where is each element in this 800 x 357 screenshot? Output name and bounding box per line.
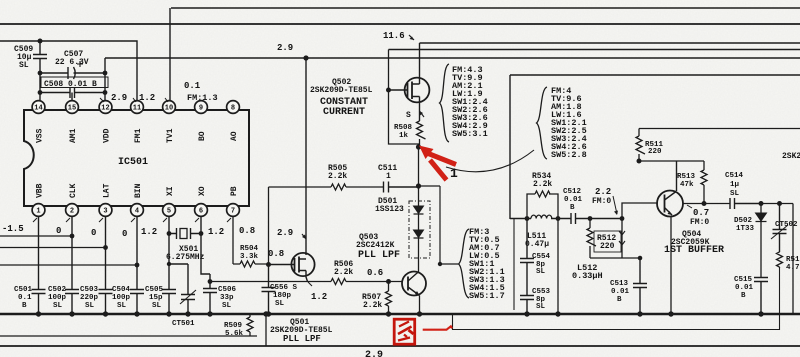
resistor R507 bbox=[386, 282, 392, 315]
node combo right bbox=[556, 216, 561, 221]
svg-text:2.2: 2.2 bbox=[595, 187, 611, 197]
node C513 ground bbox=[637, 311, 642, 316]
svg-text:15: 15 bbox=[68, 105, 76, 113]
svg-text:C506: C506 bbox=[218, 286, 237, 294]
svg-text:C502: C502 bbox=[48, 286, 67, 294]
svg-text:1.2: 1.2 bbox=[208, 227, 224, 237]
wire 11.6 drain rail bbox=[420, 42, 800, 44]
svg-text:1SS123: 1SS123 bbox=[375, 205, 404, 214]
svg-text:0: 0 bbox=[91, 228, 96, 238]
capacitor C504 bbox=[130, 217, 144, 314]
svg-text:BIN: BIN bbox=[134, 183, 143, 198]
resistor R511 bbox=[636, 129, 645, 162]
svg-text:C553: C553 bbox=[532, 288, 551, 296]
node CT502 top bbox=[777, 201, 782, 206]
capacitor C502 bbox=[65, 217, 79, 314]
crystal X501 bbox=[169, 228, 201, 239]
svg-text:4: 4 bbox=[135, 208, 139, 216]
capacitor C509 bbox=[33, 41, 47, 101]
svg-text:11: 11 bbox=[133, 105, 141, 113]
svg-text:FM1: FM1 bbox=[134, 128, 143, 143]
transistor Q501 FET bbox=[269, 234, 315, 286]
node R513 bottom bbox=[702, 201, 707, 206]
svg-text:5.6k: 5.6k bbox=[225, 330, 244, 338]
transistor Q504 bbox=[657, 161, 730, 314]
wire base riser bbox=[622, 203, 658, 219]
node pin5 jog bbox=[167, 262, 171, 266]
small pin arrows bbox=[33, 98, 231, 222]
svg-text:PB: PB bbox=[230, 186, 239, 196]
node C508 right bbox=[103, 90, 108, 95]
transistor Q503 bbox=[402, 272, 426, 315]
svg-text:0.7: 0.7 bbox=[693, 208, 709, 218]
node C512 right bbox=[588, 216, 593, 221]
svg-text:AO: AO bbox=[230, 131, 239, 141]
node R511 bottom bbox=[637, 159, 642, 164]
resistor R534 bbox=[527, 191, 558, 219]
svg-text:C505: C505 bbox=[145, 286, 164, 294]
wire left rail to pin11 bbox=[0, 41, 137, 101]
op-amp IC501 body bbox=[24, 110, 249, 206]
svg-text:2SK209D-TE85L: 2SK209D-TE85L bbox=[310, 86, 373, 95]
svg-text:SL: SL bbox=[152, 302, 162, 310]
svg-text:1.2: 1.2 bbox=[311, 292, 327, 302]
svg-text:R504: R504 bbox=[240, 245, 259, 253]
wire gate rail bbox=[389, 49, 800, 51]
svg-text:XI: XI bbox=[166, 186, 175, 196]
svg-text:SL: SL bbox=[222, 302, 232, 310]
svg-text:2SK2: 2SK2 bbox=[782, 152, 800, 161]
svg-text:PLL LPF: PLL LPF bbox=[283, 334, 321, 344]
svg-text:33p: 33p bbox=[220, 294, 234, 302]
wire bottom-left rail bbox=[0, 335, 257, 337]
pin 2 bbox=[66, 204, 79, 217]
svg-text:FM:1.3: FM:1.3 bbox=[187, 93, 218, 103]
svg-text:CT501: CT501 bbox=[172, 320, 195, 328]
capacitor C511 bbox=[384, 182, 419, 193]
svg-text:14: 14 bbox=[34, 105, 42, 113]
node C513 top bbox=[638, 256, 643, 261]
svg-text:AM1: AM1 bbox=[69, 128, 78, 143]
svg-text:VSS: VSS bbox=[36, 128, 45, 143]
capacitor C513 bbox=[633, 258, 647, 314]
resistor R504 bbox=[233, 217, 269, 267]
svg-text:C504: C504 bbox=[112, 286, 131, 294]
wire bottom link bbox=[265, 314, 267, 346]
pin 4 bbox=[131, 204, 144, 217]
svg-text:C508 0.01 B: C508 0.01 B bbox=[44, 80, 97, 89]
pin 6 bbox=[195, 204, 208, 217]
node combo left bbox=[525, 216, 530, 221]
svg-text:SW5:2.8: SW5:2.8 bbox=[551, 150, 587, 160]
svg-text:2SC2412K: 2SC2412K bbox=[356, 241, 395, 250]
svg-text:11.6: 11.6 bbox=[383, 31, 405, 41]
svg-text:B: B bbox=[741, 292, 746, 300]
wire combo right to ground bbox=[557, 219, 559, 315]
svg-text:FM:0: FM:0 bbox=[690, 218, 709, 227]
svg-text:SL: SL bbox=[117, 302, 127, 310]
node C507 left bbox=[38, 71, 43, 76]
svg-text:1k: 1k bbox=[399, 132, 409, 140]
wire collector rail bbox=[639, 160, 704, 162]
pin 14 bbox=[32, 101, 45, 114]
svg-text:1: 1 bbox=[36, 208, 40, 216]
brace table1 bbox=[440, 64, 450, 142]
svg-text:SW5:3.1: SW5:3.1 bbox=[452, 129, 488, 139]
svg-text:FM:0: FM:0 bbox=[592, 197, 611, 206]
capacitor C515 bbox=[754, 278, 768, 315]
transistor Q502 FET bbox=[389, 43, 430, 121]
svg-text:1ST BUFFER: 1ST BUFFER bbox=[664, 245, 724, 256]
wire out to right bbox=[761, 204, 793, 315]
pin 11 bbox=[131, 101, 144, 114]
red character tu (diagram) bbox=[394, 319, 415, 344]
svg-text:0.8: 0.8 bbox=[239, 226, 255, 236]
svg-text:1: 1 bbox=[386, 172, 391, 181]
node C515 ground bbox=[758, 311, 763, 316]
svg-text:SL: SL bbox=[536, 303, 546, 311]
svg-text:SL: SL bbox=[275, 300, 285, 308]
node pin2 rail bbox=[70, 234, 75, 239]
svg-text:D502: D502 bbox=[734, 217, 753, 225]
svg-text:0.8: 0.8 bbox=[268, 249, 284, 259]
wire main filter line bbox=[510, 218, 622, 220]
svg-text:SW5:1.7: SW5:1.7 bbox=[469, 291, 505, 301]
node Q504 emitter ground bbox=[668, 311, 673, 316]
svg-text:SL: SL bbox=[730, 190, 740, 198]
svg-text:C556 S: C556 S bbox=[270, 284, 298, 292]
node C507 right bbox=[103, 71, 108, 76]
wire pin12 riser bbox=[104, 58, 106, 101]
svg-text:0.1: 0.1 bbox=[18, 294, 32, 302]
svg-text:0.47µ: 0.47µ bbox=[525, 240, 549, 249]
svg-text:B: B bbox=[617, 296, 622, 304]
svg-text:R508: R508 bbox=[394, 124, 413, 132]
node R508 bottom bbox=[416, 144, 421, 149]
svg-text:0.01: 0.01 bbox=[735, 284, 754, 292]
wire table2 box top bbox=[510, 74, 800, 76]
svg-text:B: B bbox=[570, 204, 575, 212]
svg-text:LAT: LAT bbox=[103, 183, 112, 198]
wire left rail to pin2 bbox=[0, 235, 72, 237]
pin 3 bbox=[99, 204, 112, 217]
resistor R509 bbox=[247, 314, 253, 336]
wire lower annotation line bbox=[453, 268, 780, 330]
pin 12 bbox=[99, 101, 112, 114]
wire source line bbox=[210, 281, 331, 283]
svg-text:1: 1 bbox=[450, 166, 458, 181]
node crystal right bbox=[199, 231, 204, 236]
svg-text:6.275MHz: 6.275MHz bbox=[166, 253, 205, 262]
svg-text:5: 5 bbox=[167, 208, 171, 216]
node C511 junction bbox=[416, 183, 421, 188]
svg-text:4.7: 4.7 bbox=[786, 264, 800, 272]
svg-text:7: 7 bbox=[231, 208, 235, 216]
resistor R508 bbox=[417, 121, 426, 147]
svg-text:VBB: VBB bbox=[36, 183, 45, 198]
node Q502 gate bbox=[386, 88, 391, 93]
node base junction bbox=[386, 279, 391, 284]
svg-text:15p: 15p bbox=[149, 294, 163, 302]
svg-text:0.01: 0.01 bbox=[564, 196, 583, 204]
capacitor C501 bbox=[32, 217, 46, 314]
svg-text:C513: C513 bbox=[610, 280, 629, 288]
wire Q501 drain riser bbox=[305, 58, 307, 255]
pin 7 bbox=[227, 204, 240, 217]
node Q501 gate bbox=[266, 262, 271, 267]
capacitor C554 bbox=[520, 219, 534, 315]
svg-text:B: B bbox=[22, 302, 27, 310]
svg-text:100p: 100p bbox=[112, 294, 131, 302]
svg-text:SL: SL bbox=[53, 302, 63, 310]
svg-text:CURRENT: CURRENT bbox=[323, 107, 365, 118]
svg-text:9: 9 bbox=[199, 105, 203, 113]
svg-text:2.9: 2.9 bbox=[277, 43, 293, 53]
svg-text:100p: 100p bbox=[48, 294, 67, 302]
pin name labels rotated bbox=[36, 128, 240, 198]
svg-text:SL: SL bbox=[85, 302, 95, 310]
svg-text:R513: R513 bbox=[677, 173, 696, 181]
node 558 ground bbox=[555, 311, 560, 316]
resistor R512 loop bbox=[587, 219, 640, 259]
pin 1 bbox=[32, 204, 45, 217]
svg-text:8: 8 bbox=[231, 105, 235, 113]
svg-text:2.9: 2.9 bbox=[111, 93, 127, 103]
pin circles top row bbox=[32, 101, 239, 217]
red arrow annotation bbox=[419, 146, 456, 181]
svg-text:CT502: CT502 bbox=[775, 221, 798, 229]
svg-text:C512: C512 bbox=[563, 188, 582, 196]
svg-text:220: 220 bbox=[648, 148, 662, 156]
svg-text:SL: SL bbox=[19, 61, 29, 70]
svg-text:0: 0 bbox=[122, 229, 127, 239]
node C514 out bbox=[759, 201, 764, 206]
svg-text:1T33: 1T33 bbox=[736, 225, 755, 233]
voltage table 1 bbox=[452, 65, 488, 139]
pin 15 bbox=[66, 101, 79, 114]
svg-text:0.6: 0.6 bbox=[367, 268, 383, 278]
svg-text:1µ: 1µ bbox=[730, 181, 740, 189]
capacitor C506 bbox=[201, 217, 217, 314]
wire gate feedback loop bbox=[389, 50, 420, 145]
ground rail bbox=[0, 313, 800, 315]
svg-text:2.2k: 2.2k bbox=[328, 172, 347, 181]
wire 2.9 rail bbox=[105, 57, 800, 59]
wire table2 box left edge bbox=[509, 75, 511, 219]
voltage table 3 bbox=[469, 227, 505, 301]
svg-text:2.9: 2.9 bbox=[365, 350, 383, 357]
inductor L511 bbox=[531, 215, 552, 218]
pin 9 bbox=[195, 101, 208, 114]
node Q503 emitter ground bbox=[417, 311, 422, 316]
svg-text:180p: 180p bbox=[273, 292, 292, 300]
resistor R506 bbox=[331, 279, 402, 285]
svg-text:47k: 47k bbox=[680, 181, 694, 189]
pin 8 bbox=[227, 101, 240, 114]
node pin4 rail bbox=[135, 263, 140, 268]
capacitor C503 bbox=[99, 217, 113, 314]
capacitor C507 electrolytic bbox=[40, 61, 105, 79]
wire full-width top rail bbox=[0, 23, 800, 25]
svg-text:220p: 220p bbox=[80, 294, 99, 302]
node 2.9 rail junction bbox=[303, 55, 308, 60]
node R507 ground bbox=[386, 311, 391, 316]
svg-text:22 6.3V: 22 6.3V bbox=[55, 58, 89, 67]
wire R505 left riser bbox=[268, 187, 270, 265]
svg-text:1.2: 1.2 bbox=[141, 227, 157, 237]
diode D502 bbox=[756, 204, 767, 278]
wire left rail to pin3 bbox=[0, 247, 105, 249]
node C509/rail junction bbox=[38, 39, 43, 44]
pin 5 bbox=[163, 204, 176, 217]
svg-text:C554: C554 bbox=[532, 253, 551, 261]
svg-text:2: 2 bbox=[70, 208, 74, 216]
wire to table3 bbox=[419, 186, 459, 264]
svg-text:3: 3 bbox=[103, 208, 107, 216]
svg-text:XO: XO bbox=[198, 186, 207, 196]
svg-text:C501: C501 bbox=[14, 286, 33, 294]
capacitor C512 series bbox=[571, 213, 576, 224]
svg-text:10: 10 bbox=[165, 105, 173, 113]
svg-text:SL: SL bbox=[536, 268, 546, 276]
resistor R513 bbox=[701, 161, 707, 203]
resistor R505 bbox=[269, 184, 384, 190]
wire R508 to C511 node bbox=[418, 147, 420, 186]
node C554 ground bbox=[524, 311, 529, 316]
svg-text:C514: C514 bbox=[725, 172, 744, 180]
voltage table 2 bbox=[551, 86, 587, 160]
wire R511 top rail bbox=[639, 128, 800, 130]
svg-text:6: 6 bbox=[199, 208, 203, 216]
wire pin15 riser bbox=[71, 93, 73, 102]
svg-text:0.01: 0.01 bbox=[611, 288, 630, 296]
svg-text:220: 220 bbox=[600, 242, 615, 251]
svg-text:0: 0 bbox=[56, 226, 61, 236]
wire bottom full rail bbox=[0, 345, 800, 347]
svg-text:C503: C503 bbox=[80, 286, 99, 294]
svg-text:C515: C515 bbox=[734, 276, 753, 284]
pointer curve to table2 bbox=[446, 150, 534, 172]
node base tap bbox=[620, 216, 625, 221]
trimmer CT502 bbox=[771, 204, 788, 253]
svg-text:2.2k: 2.2k bbox=[334, 268, 353, 277]
brace table3 bbox=[459, 229, 470, 298]
svg-text:2.2k: 2.2k bbox=[533, 180, 552, 189]
node C506 tap bbox=[208, 279, 213, 284]
resistor R515 bbox=[777, 252, 783, 268]
capacitor C514 bbox=[730, 198, 761, 209]
brace table2 bbox=[537, 87, 548, 159]
svg-text:2.2k: 2.2k bbox=[363, 301, 382, 310]
svg-text:1.2: 1.2 bbox=[139, 93, 155, 103]
arrow 11.6 bbox=[409, 35, 414, 40]
wire top box rail bbox=[171, 7, 800, 9]
svg-text:BO: BO bbox=[198, 131, 207, 141]
svg-text:VDD: VDD bbox=[103, 128, 112, 143]
wire mid vertical bbox=[513, 219, 515, 310]
svg-text:R509: R509 bbox=[224, 322, 243, 330]
svg-text:PLL LPF: PLL LPF bbox=[358, 250, 400, 261]
svg-text:0.33µH: 0.33µH bbox=[572, 271, 603, 281]
svg-text:-1.5: -1.5 bbox=[2, 224, 24, 234]
diode D501 dual in dashed box bbox=[409, 186, 430, 272]
svg-text:IC501: IC501 bbox=[118, 157, 148, 168]
capacitor C505 bbox=[162, 217, 176, 314]
capacitor C556 bbox=[262, 265, 276, 315]
svg-text:3.3k: 3.3k bbox=[240, 253, 259, 261]
node crystal left bbox=[167, 231, 172, 236]
svg-text:0.1: 0.1 bbox=[184, 81, 201, 91]
wire left rail to pin4 bbox=[0, 264, 137, 266]
svg-text:2.9: 2.9 bbox=[277, 228, 293, 238]
node table3 wire bbox=[438, 262, 442, 266]
pin 10 bbox=[163, 101, 176, 114]
red dash bbox=[423, 326, 452, 329]
svg-text:R51: R51 bbox=[786, 256, 800, 264]
ground nodes caps row bbox=[36, 311, 271, 316]
svg-text:12: 12 bbox=[101, 105, 109, 113]
svg-text:TV1: TV1 bbox=[166, 128, 175, 143]
capacitor C508 with boxed label bbox=[40, 77, 108, 98]
node pin3 rail bbox=[103, 245, 108, 250]
trimmer CT501 bbox=[169, 264, 196, 314]
node C508 left bbox=[38, 90, 43, 95]
svg-text:CLK: CLK bbox=[69, 183, 78, 198]
wire box left edge to pin10 bbox=[169, 8, 171, 101]
svg-text:S: S bbox=[406, 111, 411, 120]
